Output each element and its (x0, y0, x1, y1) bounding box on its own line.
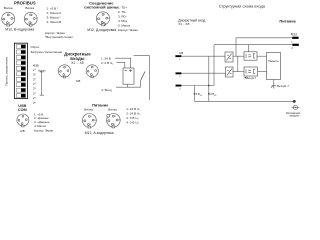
sensor supply box (123, 68, 134, 84)
svg-text:1: +5 В *: 1: +5 В * (47, 6, 59, 10)
wire drop isolator row1 to isolator row2 (237, 56, 239, 71)
svg-text:Сброс: Сброс (31, 45, 40, 49)
svg-text:1: 1 (32, 15, 33, 17)
connector PROFIBUS plug 2 (M12 B-coded) (24, 12, 37, 26)
svg-text:4: 4 (90, 124, 91, 126)
label 0V right (208, 93, 210, 95)
svg-text:модуля: модуля (290, 115, 300, 118)
pin list system bus (118, 6, 138, 32)
wire 0V to sensor (117, 62, 125, 68)
connector power right pin numbers (107, 116, 120, 126)
connector system bus pin numbers (97, 14, 110, 24)
svg-text:М12, А-кодировка: М12, А-кодировка (85, 131, 114, 135)
svg-text:3: 3 (36, 18, 37, 20)
svg-text:Выход1-7: Выход1-7 (277, 84, 289, 88)
svg-text:4: 4 (114, 124, 115, 126)
svg-text:системной шины: системной шины (84, 5, 119, 10)
svg-text:3: 3 (119, 120, 120, 122)
svg-text:3: 3 (108, 18, 109, 20)
svg-text:М8: М8 (179, 51, 183, 55)
isolator block row2 (226, 67, 234, 77)
wire isolator to converter row1 (233, 55, 244, 57)
svg-text:4: 4 (104, 22, 105, 24)
wire drop 24V rail to bottom rail (208, 56, 210, 101)
svg-text:PROFIBUS: PROFIBUS (14, 0, 36, 5)
control panel outline (14, 43, 27, 98)
svg-text:2: TD-: 2: TD- (118, 10, 126, 14)
connector power right (M12 A-coded) (107, 114, 121, 128)
connector PROFIBUS plug 1 pin numbers (2, 15, 14, 25)
svg-text:Вилка: Вилка (84, 108, 93, 112)
wire power line 1 (236, 37, 292, 39)
terminal bar power 2 (292, 44, 298, 46)
svg-text:4: Вход: 4: Вход (101, 88, 112, 92)
svg-text:4: 4 (31, 22, 32, 24)
wire 24V to sensor (115, 58, 131, 68)
svg-text:МЗБ: МЗБ (33, 63, 39, 67)
wire top bar to right rail (134, 56, 150, 100)
svg-text:М12, Д-кодировка: М12, Д-кодировка (87, 28, 116, 32)
connector power left (M12 A-coded) (83, 114, 97, 129)
memory block (267, 53, 281, 80)
wire drop to converter row1 (247, 45, 249, 52)
address bit labels (33, 68, 37, 105)
svg-text:Вилка: Вилка (25, 6, 34, 10)
svg-text:А/В: А/В (20, 129, 25, 133)
wire converter to memory row1 (257, 55, 267, 57)
pin list USB COM (34, 112, 53, 132)
node backplane dot (293, 100, 296, 103)
converter block row1 (244, 52, 257, 60)
svg-text:4: 4 (9, 22, 10, 24)
wire drop pin4 rail to bottom rail (193, 86, 195, 102)
pin list power (126, 107, 141, 125)
terminal bar power 1 (292, 37, 298, 39)
svg-text:2: 2 (97, 18, 98, 20)
connector discrete input left (M8) (58, 65, 70, 78)
svg-text:3: 3 (13, 18, 14, 20)
wire 24V from pin1 (181, 55, 225, 57)
svg-text:Память: Память (268, 59, 279, 63)
wire memory down (273, 80, 275, 84)
svg-text:М12: М12 (291, 32, 297, 36)
switch contact (141, 72, 145, 81)
svg-text:М8: М8 (76, 79, 80, 83)
svg-text:Структурная схема входа: Структурная схема входа (219, 4, 266, 9)
svg-text:3: RD-: 3: RD- (118, 15, 127, 19)
svg-text:Х1 ... Х8: Х1 ... Х8 (71, 61, 83, 65)
wire converter to memory row2 (258, 71, 267, 73)
svg-text:1: 1 (104, 14, 105, 16)
svg-text:Питание: Питание (279, 19, 296, 24)
terminal bar input pin4 (176, 85, 182, 87)
svg-text:COM: COM (18, 108, 27, 112)
svg-text:Панель управления: Панель управления (5, 57, 9, 86)
svg-text:Х1 ...Х8: Х1 ...Х8 (178, 22, 189, 26)
isolator block row1 (225, 52, 233, 62)
svg-text:1: TD+: 1: TD+ (118, 6, 127, 10)
svg-text:2: 2 (83, 120, 84, 122)
wire drop line2 to 0V rail (213, 45, 215, 86)
svg-text:М12, В-кодировка: М12, В-кодировка (5, 28, 34, 32)
label Vhod1-7 under converter row2 (244, 76, 257, 80)
connector PROFIBUS plug 1 (M12 B-coded) (2, 12, 15, 26)
svg-text:1: 1 (10, 15, 11, 17)
svg-text:2: 2 (25, 19, 26, 21)
svg-text:2: Линия А: 2: Линия А (47, 11, 62, 15)
svg-text:3: Масса *: 3: Масса * (47, 15, 62, 19)
wire input rail (116, 86, 141, 88)
converter block row2 (244, 67, 258, 76)
svg-text:Питание: Питание (92, 103, 109, 108)
svg-text:2: 2 (107, 120, 108, 122)
connector PROFIBUS plug 2 pin numbers (25, 15, 37, 25)
svg-text:4: RD+: 4: RD+ (118, 19, 128, 23)
label 0V left (194, 93, 196, 95)
terminal bar input pin1 (175, 55, 181, 57)
address bracket (40, 72, 44, 95)
junction dot (208, 85, 210, 87)
wire isolator to converter row2 (233, 71, 244, 73)
symbol output marker (271, 84, 276, 89)
connector system bus (M12 D-coded) (96, 12, 109, 26)
svg-text:Загрузка / выполнение: Загрузка / выполнение (31, 50, 63, 54)
svg-text:4: Линия В: 4: Линия В (47, 20, 62, 24)
svg-text:*Внутренний сигнал: *Внутренний сигнал (45, 35, 73, 39)
svg-text:2: 2 (2, 19, 3, 21)
svg-text:Вилка: Вилка (108, 108, 117, 112)
wire sensor to input rail (127, 84, 129, 87)
pin list PROFIBUS (45, 6, 73, 38)
wire input from pin4 (181, 85, 214, 87)
svg-text:Вход1-7: Вход1-7 (247, 76, 257, 80)
svg-text:Вилка: Вилка (4, 6, 13, 10)
wire bottom rail to backplane (194, 100, 293, 102)
connector USB COM (M8) (17, 114, 29, 127)
svg-text:5: Масса: 5: Масса (118, 24, 131, 28)
svg-text:Корпус: Экран: Корпус: Экран (34, 128, 53, 132)
svg-text:1: 1 (115, 116, 116, 118)
svg-text:3: 3 (95, 120, 96, 122)
svg-text:1: 1 (91, 116, 92, 118)
wire switch down (140, 81, 142, 88)
DIP switch rows (16, 45, 25, 98)
terminal bar input pin2 (176, 72, 182, 74)
connector discrete input right (M8) (86, 65, 98, 78)
wire drop to isolator row1 (235, 38, 237, 56)
svg-text:Корпус: Экран: Корпус: Экран (118, 28, 138, 32)
wire power line 2 (214, 44, 292, 46)
connector power left pin numbers (83, 116, 96, 126)
wire 0V from pin2 (181, 72, 225, 74)
backplane bus symbol (292, 105, 300, 109)
svg-text:Адрес: Адрес (38, 68, 46, 72)
